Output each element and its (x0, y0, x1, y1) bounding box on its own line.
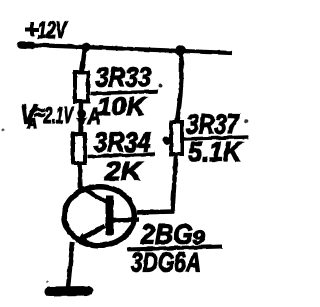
wire: R34 down to transistor collector (80, 163, 81, 190)
fraction bar for 2BG9/3DG6A (127, 247, 222, 250)
fraction bar for 3R37/5.1K (183, 137, 249, 139)
wire: elbow horizontal to transistor base (137, 212, 174, 213)
fraction bar for 3R34/2K (88, 154, 156, 157)
node A arrow (76, 118, 88, 128)
wire: junction down to R33 (82, 48, 86, 73)
resistor R34 (3R34 2K) body (73, 134, 85, 163)
svg-text:2K: 2K (104, 156, 144, 185)
wire: base segment inside transistor (112, 217, 139, 222)
speckle (245, 119, 249, 123)
svg-text:≈: ≈ (34, 102, 44, 125)
svg-text:12V: 12V (38, 17, 69, 44)
wire: +12V top rail (20, 45, 232, 54)
transistor emitter arrowhead (76, 233, 88, 243)
+12V supply label plus sign (25, 23, 39, 37)
junction: rail to right branch (175, 45, 185, 55)
node A dot (77, 110, 86, 119)
wire: R37 down to elbow (173, 155, 177, 211)
speckle (46, 281, 48, 283)
speckle (158, 84, 162, 88)
svg-text:10K: 10K (97, 94, 148, 121)
transistor Q (2BG9 / 3DG6A) circle (64, 187, 134, 246)
wire: rail junction down to R37 (177, 51, 182, 121)
wire: R33 to R34 through node A (78, 102, 83, 134)
transistor base bar (106, 196, 114, 236)
stray mark left of R37 (163, 136, 170, 145)
speckle (1, 129, 4, 132)
junction: rail to left branch (81, 42, 91, 52)
resistor R37 (3R37 5.1K) body (171, 122, 182, 154)
wire: rail left end blob (21, 41, 32, 49)
svg-text:3DG6A: 3DG6A (131, 248, 201, 279)
transistor emitter diagonal (78, 226, 105, 241)
svg-text:2.1V: 2.1V (43, 104, 74, 129)
svg-text:2BG: 2BG (140, 218, 193, 250)
svg-text:3R33: 3R33 (96, 63, 152, 93)
ground symbol (49, 287, 89, 297)
transistor collector diagonal (81, 187, 108, 203)
wire: emitter down to ground (68, 242, 73, 288)
svg-text:5.1K: 5.1K (188, 136, 243, 168)
fraction bar for 3R33/10K (91, 92, 159, 94)
resistor R33 (3R33 10K) body (75, 73, 88, 102)
